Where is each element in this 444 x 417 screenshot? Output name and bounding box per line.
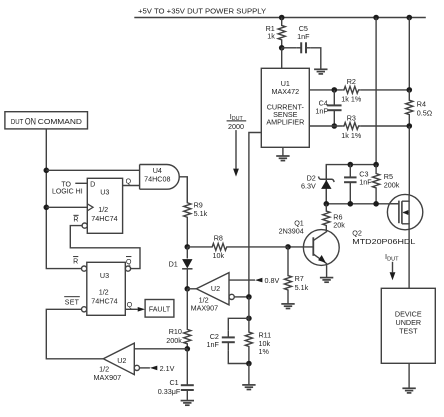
svg-text:74HC74: 74HC74 [91,214,117,223]
svg-text:LOGIC HI: LOGIC HI [52,189,83,196]
ground for C1 [181,401,194,406]
junction D1/U2 output [185,286,191,292]
resistor R3 [341,114,409,140]
junction C3 top [348,162,354,168]
svg-text:1%: 1% [259,347,270,356]
svg-text:2.1V: 2.1V [160,364,175,373]
bubble R-bar first FF [82,223,87,228]
wire U1 out2 [309,125,342,127]
svg-text:200k: 200k [166,336,182,345]
svg-text:1nF: 1nF [359,178,372,187]
svg-text:R3: R3 [347,114,356,123]
resistor R4 [406,90,433,126]
resistor R8 [187,234,288,261]
junction rail/R1 [279,15,285,21]
junction C4 bottom [332,123,338,129]
capacitor C4 [315,90,341,126]
svg-text:2N3904: 2N3904 [279,226,304,235]
capacitor C5 [282,24,321,69]
svg-text:R7: R7 [295,274,304,283]
junction C2 top [246,316,252,322]
flip-flop U3 1/2 74HC74 (first) [87,178,122,233]
label Q-bar second FF [126,257,132,266]
bubble SET-bar [82,307,87,312]
wire MOSFET drain to DUT [408,230,410,289]
zener diode D2 6.3V [301,165,334,204]
label IDUT arrow [385,252,399,280]
junction U2 -/R11 node [246,294,252,300]
capacitor C2 loop [207,318,249,363]
junction D2/R6 [324,201,330,207]
svg-text:MAX472: MAX472 [272,87,300,96]
flip-flop U3 1/2 74HC74 (second) [87,262,126,315]
wire U1 out1 [309,89,342,91]
ground for R11/C2 [242,385,255,390]
svg-text:U2: U2 [211,284,220,293]
capacitor C1 [158,349,194,401]
block DUT ON COMMAND [5,112,88,129]
junction command/clock [44,205,50,211]
wire FF1 Rbar to FF2 Qbar [70,226,140,269]
svg-text:200k: 200k [384,181,400,190]
svg-text:1nF: 1nF [207,340,220,349]
junction rail/clamp branch [373,15,379,21]
svg-text:10k: 10k [213,251,225,260]
svg-text:0.8V: 0.8V [265,276,280,285]
svg-text:D1: D1 [169,260,178,269]
wire U2 + input to 0.8V [229,279,255,281]
amplifier U1 MAX472 [261,48,309,148]
svg-text:C1: C1 [169,378,178,387]
wire U2 - input to node [234,296,249,298]
junction R9/R8/D1 [185,244,191,250]
wire FF1 Q to AND [123,185,140,187]
ground for R7 [281,304,294,309]
svg-text:U2: U2 [117,356,126,365]
resistor R2 [341,77,409,103]
label R-bar second FF [73,257,78,266]
svg-text:MAX907: MAX907 [94,373,122,382]
resistor R5 [373,165,400,204]
reference 0.8V [255,276,279,285]
wire U2b output to SET [46,309,103,359]
svg-text:74HC74: 74HC74 [91,296,117,305]
junction R3/R4 [407,123,413,129]
svg-text:R4: R4 [417,99,426,108]
wire clamp bottom to MOSFET gate [326,203,399,205]
ground for U1 [276,156,289,161]
svg-text:TO: TO [61,181,71,188]
block FAULT [145,300,174,318]
svg-text:TEST: TEST [399,326,418,335]
svg-text:DUT: DUT [11,119,24,126]
transistor Q1 2N3904 [279,218,340,265]
resistor R10 [166,289,191,349]
junction R1/C5/U1 [279,45,285,51]
label SET-bar [64,297,80,307]
junction C4 top [332,87,338,93]
svg-text:0.5Ω: 0.5Ω [417,109,433,118]
diode D1 [169,247,193,289]
power rail +5V to +35V DUT power supply label [138,7,266,16]
svg-text:1k 1%: 1k 1% [341,94,362,103]
svg-text:5.1k: 5.1k [194,209,208,218]
svg-text:6.3V: 6.3V [301,182,316,191]
svg-text:20k: 20k [333,221,345,230]
svg-text:SET: SET [65,299,80,306]
wire U4 output to R9 [179,177,187,202]
svg-text:R: R [73,217,78,224]
svg-text:2000: 2000 [228,122,244,131]
label Q second FF [127,302,133,309]
svg-text:Q: Q [127,302,133,309]
resistor R7 [284,247,308,304]
junction R5 bottom [373,201,379,207]
svg-text:1/2: 1/2 [99,288,109,297]
wire TO LOGIC HI stub [52,181,87,195]
svg-text:+5V TO +35V DUT POWER SUPPLY: +5V TO +35V DUT POWER SUPPLY [138,7,266,16]
junction R5 top [373,162,379,168]
wire Q1 emitter to ground [326,265,328,277]
ground for C5 [314,69,327,74]
svg-text:D: D [90,180,95,189]
bubble R-bar second FF [82,266,87,271]
wire rail to R4 node [408,18,410,90]
label Q first FF [126,179,132,186]
resistor R9 [184,177,208,247]
svg-text:1nF: 1nF [315,107,328,116]
label IDUT/2000 current arrow [227,112,247,177]
wire rail to clamp top [375,18,377,165]
wire clamp top [326,165,376,204]
wire U2b + input to R10 node [134,348,187,350]
svg-text:Q: Q [126,259,132,266]
wire U1 bottom pin [282,147,284,156]
svg-text:R: R [73,259,78,266]
capacitor C3 [344,165,372,204]
svg-text:1k: 1k [267,32,275,41]
svg-text:R8: R8 [214,234,223,243]
wire clock input [46,206,87,208]
svg-text:1k 1%: 1k 1% [341,131,362,140]
ground for DUT [402,388,415,393]
wire U2b - input stub [140,367,150,369]
junction command/AND input [44,168,50,174]
svg-text:R2: R2 [347,77,356,86]
wire node to ground [248,364,250,385]
wire DUT to ground [408,363,410,388]
svg-text:COMMAND: COMMAND [38,119,82,126]
bubble U2b inverting input [134,365,139,370]
svg-text:ON: ON [25,116,36,126]
svg-text:MAX907: MAX907 [191,304,219,313]
wire to U4 top input [46,169,139,171]
junction R10/C1/U2b [185,346,191,352]
svg-text:U4: U4 [153,166,162,175]
resistor R1 [266,18,286,48]
svg-text:U3: U3 [100,271,109,280]
svg-text:74HC08: 74HC08 [144,175,170,184]
wire power rail [134,17,426,19]
transistor Q2 MTD20P06HDL p-channel MOSFET [352,194,422,246]
junction C2 bottom [246,361,252,367]
bubble Q-bar second FF [125,266,130,271]
ground for Q1 [320,278,333,283]
reference 2.1V [150,364,175,373]
and gate U4 74HC08 [140,165,180,190]
block DEVICE UNDER TEST [381,288,435,363]
svg-text:1/2: 1/2 [98,205,108,214]
junction Q1 base/R7 [285,244,291,250]
resistor R6 [323,204,346,231]
svg-text:AMPLIFIER: AMPLIFIER [266,117,304,126]
svg-text:5.1k: 5.1k [295,283,309,292]
resistor R11 [245,297,271,364]
junction rail/R4 branch [407,15,413,21]
wire R4 node to MOSFET source [408,126,410,195]
svg-text:Q: Q [126,179,132,186]
svg-text:FAULT: FAULT [149,307,171,314]
comparator U2 1/2 MAX907 (middle) [187,273,229,313]
wire FF2 Q to FAULT [125,307,145,312]
comparator U2 1/2 MAX907 (bottom) [94,343,135,382]
svg-text:0.33μF: 0.33μF [158,387,181,396]
bubble U2 inverting input [229,294,234,299]
svg-text:R10: R10 [169,327,182,336]
svg-text:U3: U3 [100,187,109,196]
wire command line [46,129,81,269]
svg-text:1nF: 1nF [297,32,310,41]
svg-text:MTD20P06HDL: MTD20P06HDL [352,237,415,246]
wire U1 left pin to comparator node [249,133,261,297]
junction C3 bottom [348,201,354,207]
label R-bar first FF [73,215,78,223]
junction R2/R4 [407,87,413,93]
